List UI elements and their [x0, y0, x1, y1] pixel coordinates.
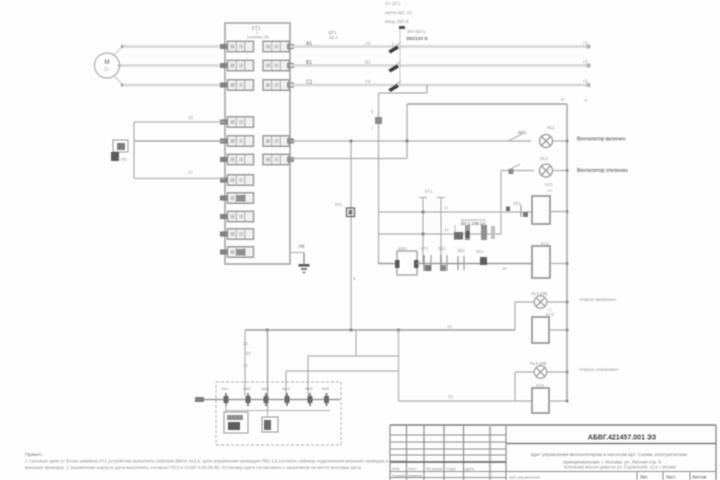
svg-text:SA5: SA5 — [305, 386, 313, 391]
device box P2 — [262, 417, 278, 432]
svg-text:Лист: Лист — [408, 466, 417, 471]
svg-text:3~: 3~ — [104, 67, 110, 73]
svg-text:Примеч.:: Примеч.: — [25, 452, 44, 457]
svg-text:В1: В1 — [306, 60, 312, 66]
breaker QF1 — [328, 26, 401, 91]
svg-text:ввод 380 В: ввод 380 В — [385, 19, 409, 24]
terminal block XT1 outline — [225, 23, 290, 264]
svg-text:КМ1: КМ1 — [518, 130, 527, 135]
svg-text:3N~50Гц: 3N~50Гц — [407, 29, 426, 34]
svg-text:Лист: Лист — [666, 475, 676, 480]
rail y263 contacts — [417, 246, 532, 271]
dashed enclosure — [216, 382, 341, 445]
relay KV4 — [532, 383, 567, 413]
wire y356 — [308, 355, 399, 357]
svg-text:SA1: SA1 — [221, 386, 229, 391]
bus junction dots — [566, 140, 569, 403]
terminal XT1 right row 1 — [263, 41, 294, 52]
svg-text:24: 24 — [547, 188, 552, 193]
svg-text:Дата: Дата — [465, 466, 475, 471]
left control wiring — [134, 115, 225, 179]
title block project name — [531, 452, 687, 470]
wire row5 to lamps — [290, 140, 531, 142]
svg-text:25: 25 — [243, 341, 248, 346]
svg-text:SA2: SA2 — [243, 386, 251, 391]
svg-text:380/220 В: 380/220 В — [406, 36, 428, 42]
svg-text:PE: PE — [299, 244, 305, 249]
svg-text:с2: с2 — [583, 59, 588, 64]
time relay KT1 branch wires — [419, 189, 445, 263]
title block frame — [390, 425, 716, 480]
svg-text:M: M — [105, 60, 110, 66]
svg-text:SB1: SB1 — [438, 246, 447, 251]
svg-text:Щит управления вентилятором и: Щит управления вентилятором и насосом ЩУ… — [531, 452, 687, 458]
svg-text:KV1: KV1 — [545, 182, 554, 187]
wire row6 to N riser — [290, 158, 407, 160]
svg-text:16 A: 16 A — [329, 35, 338, 40]
title block lower cells — [506, 472, 716, 480]
junction dots — [350, 140, 409, 143]
switch row wire — [195, 397, 340, 402]
switch SA2 — [243, 386, 251, 406]
svg-text:№ докум.: № докум. — [426, 466, 444, 471]
riser x501 for HL2 — [500, 171, 502, 235]
svg-text:N: N — [561, 97, 564, 102]
svg-text:А1: А1 — [306, 41, 312, 47]
svg-text:23: 23 — [448, 394, 454, 399]
svg-text:КТ1: КТ1 — [421, 246, 429, 251]
svg-text:КК1: КК1 — [476, 249, 484, 254]
svg-text:внешних проводок. 2 Заземление: внешних проводок. 2 Заземление корпуса щ… — [25, 465, 362, 470]
svg-text:Вентилятор включен: Вентилятор включен — [577, 137, 626, 143]
svg-text:КТ1: КТ1 — [425, 189, 433, 194]
terminal XT1 left row 8 — [220, 193, 254, 204]
svg-text:PE: PE — [121, 157, 127, 162]
wire phase L1 motor to XT1 — [123, 45, 225, 48]
terminal XT1 right row 3 — [263, 80, 294, 91]
top feeder labels — [385, 1, 428, 42]
terminal XT1 left row 9 — [220, 211, 254, 222]
notes text — [25, 452, 408, 470]
lamp HL2 — [501, 156, 567, 177]
svg-text:КК1: КК1 — [335, 202, 343, 207]
lower link wire — [226, 410, 330, 412]
wire y330 — [245, 329, 515, 331]
terminal XT1 left row 2 — [220, 60, 254, 71]
terminal XT1 left row 6 — [220, 154, 254, 165]
svg-text:SA4: SA4 — [282, 386, 290, 391]
verticals into switch box — [243, 330, 308, 411]
svg-text:Котельная жилого дома по ул. С: Котельная жилого дома по ул. Строителей,… — [564, 465, 677, 470]
motor M1 — [95, 45, 125, 87]
title block header row labels — [392, 466, 475, 478]
wire phase L1 XT1 to right — [290, 45, 590, 48]
svg-text:31: 31 — [444, 205, 449, 210]
svg-text:33: 33 — [444, 227, 449, 232]
svg-text:Лит.: Лит. — [640, 475, 648, 480]
terminal XT1 left row 1 — [220, 41, 254, 52]
svg-text:HL1: HL1 — [547, 125, 555, 130]
terminal XT1 left row 3 — [220, 80, 254, 91]
lamp HL1 — [540, 125, 568, 148]
tap from phase L3 — [371, 85, 427, 264]
svg-text:«Насос включен»: «Насос включен» — [579, 297, 617, 302]
diode VD1 before relay KV1 — [513, 201, 528, 217]
svg-text:клеммы 30: клеммы 30 — [247, 35, 269, 40]
terminal XT1 left row 4 — [220, 117, 254, 128]
control rail y212 — [379, 211, 533, 213]
wire phase L3 motor to XT1 — [123, 84, 225, 87]
svg-text:АБВГ.421457.001 ЭЗ: АБВГ.421457.001 ЭЗ — [588, 435, 657, 442]
svg-text:с3: с3 — [583, 79, 588, 84]
svg-text:С1: С1 — [306, 80, 313, 86]
svg-text:27: 27 — [246, 351, 251, 356]
relay KV2 — [532, 241, 567, 278]
control rail y234 — [379, 233, 502, 235]
svg-text:Вентилятор отключен: Вентилятор отключен — [577, 168, 628, 174]
svg-text:В2: В2 — [365, 60, 371, 65]
svg-text:Листов: Листов — [692, 475, 707, 480]
title block designation — [506, 435, 716, 444]
thermal relay KK1 on riser x351 — [335, 141, 355, 330]
lamp HL3 — [515, 291, 567, 330]
svg-text:1 Силовые цепи от блока зажимо: 1 Силовые цепи от блока зажимов ХТ1 устр… — [25, 458, 408, 464]
svg-text:35: 35 — [502, 266, 507, 271]
wire y371 — [286, 370, 399, 372]
device box P1 — [224, 412, 248, 433]
wire y401 to KV4 — [399, 400, 533, 402]
plug connector left — [111, 140, 128, 162]
svg-text:с1: с1 — [583, 40, 588, 45]
svg-text:Подп.: Подп. — [446, 466, 457, 471]
switch SA6 — [322, 386, 330, 406]
N bus horizontal — [407, 103, 567, 105]
svg-text:Иванов: Иванов — [408, 473, 422, 478]
contactor coil KM1 — [379, 246, 419, 275]
relay KV3 — [532, 312, 567, 343]
svg-text:15: 15 — [188, 115, 194, 120]
terminal XT1 left row 11 — [220, 247, 254, 258]
relay KV1 — [532, 182, 567, 224]
terminal XT1 right row 4 — [263, 136, 294, 147]
svg-text:HL4 24В: HL4 24В — [530, 361, 547, 366]
svg-text:щита ЩС-1А: щита ЩС-1А — [385, 10, 413, 15]
N bus vertical — [566, 104, 568, 401]
rail labels — [444, 205, 449, 232]
contact KM1 aux before lamp HL1 — [508, 130, 527, 141]
terminal XT1 left row 5 — [220, 136, 254, 147]
terminal XT1 right row 5 — [263, 154, 294, 165]
svg-text:XT1: XT1 — [251, 26, 260, 32]
wire phase L3 XT1 to right — [290, 84, 590, 87]
riser x356 — [355, 330, 357, 356]
switch SA5 — [305, 386, 313, 406]
terminal XT1 left row 10 — [220, 229, 254, 240]
svg-text:17: 17 — [188, 170, 194, 175]
wire phase L2 motor to XT1 — [120, 64, 225, 67]
svg-text:SB2: SB2 — [457, 248, 466, 253]
svg-text:21: 21 — [447, 324, 453, 329]
rectifier block VU1 — [454, 217, 495, 240]
wire phase L2 XT1 to right — [290, 64, 590, 67]
switch SA3 — [261, 386, 269, 406]
svg-text:От QF2: От QF2 — [385, 1, 401, 6]
riser x398.5 — [398, 330, 400, 401]
terminal XT1 left row 7 — [220, 175, 254, 186]
svg-text:Щит управления: Щит управления — [509, 475, 540, 480]
N riser x407 — [406, 104, 408, 159]
svg-text:«Насос отключен»: «Насос отключен» — [579, 367, 619, 372]
junction blob — [506, 207, 510, 212]
svg-text:С2: С2 — [365, 79, 371, 84]
svg-text:HL2: HL2 — [540, 156, 548, 161]
svg-text:Разраб.: Разраб. — [392, 473, 406, 478]
svg-text:SA3: SA3 — [261, 386, 269, 391]
svg-text:N: N — [584, 98, 587, 103]
switch SA1 — [221, 386, 229, 406]
ground at XT1 bottom right — [290, 244, 310, 273]
svg-text:А2: А2 — [365, 41, 371, 46]
lamp HL4 — [515, 361, 567, 401]
switch SA4 — [282, 386, 290, 406]
svg-text:Изм: Изм — [392, 466, 400, 471]
terminal XT1 right row 2 — [263, 60, 294, 71]
svg-text:SA6: SA6 — [322, 386, 330, 391]
svg-text:29: 29 — [243, 363, 248, 368]
phase wire end labels — [583, 40, 591, 87]
wire number labels on phases — [306, 41, 371, 86]
